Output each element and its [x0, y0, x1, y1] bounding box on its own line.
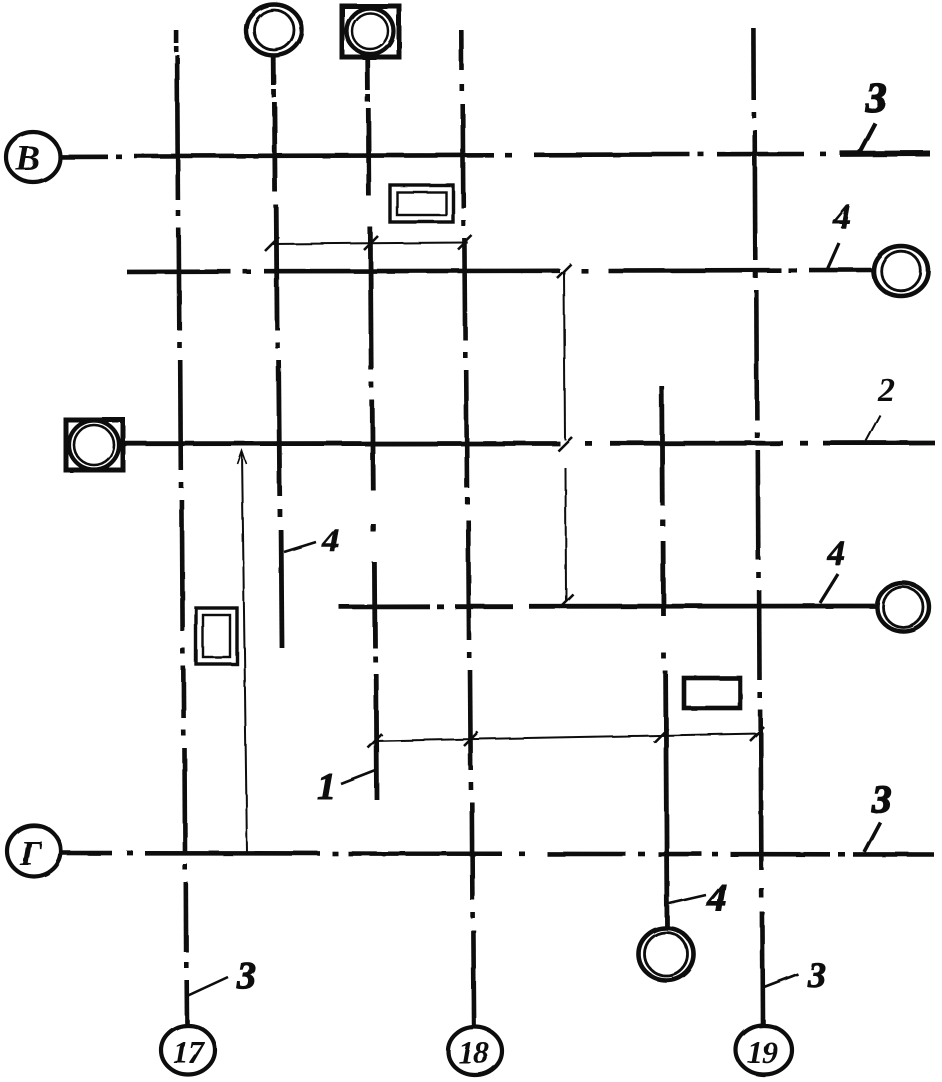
svg-text:В: В: [15, 138, 40, 178]
svg-text:1: 1: [317, 766, 336, 808]
svg-text:Г: Г: [19, 833, 42, 873]
svg-text:17: 17: [173, 1034, 206, 1070]
svg-text:4: 4: [706, 875, 727, 920]
svg-text:3: 3: [236, 955, 256, 997]
svg-text:4: 4: [832, 197, 851, 236]
svg-text:19: 19: [747, 1034, 778, 1070]
svg-text:4: 4: [321, 522, 339, 559]
svg-text:3: 3: [865, 76, 887, 122]
svg-text:3: 3: [807, 955, 826, 995]
svg-text:4: 4: [827, 534, 846, 573]
svg-text:2: 2: [877, 372, 895, 409]
svg-text:3: 3: [871, 778, 892, 821]
svg-text:18: 18: [458, 1034, 489, 1070]
